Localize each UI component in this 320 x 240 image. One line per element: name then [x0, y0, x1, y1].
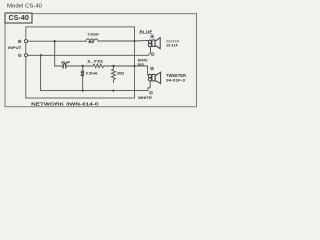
svg-text:0.6mH: 0.6mH — [88, 33, 99, 37]
svg-text:30Ω: 30Ω — [117, 70, 125, 75]
svg-text:INPUT: INPUT — [8, 45, 22, 50]
svg-text:BLUE: BLUE — [139, 29, 152, 34]
svg-text:0.5mH: 0.5mH — [86, 72, 98, 76]
svg-text:4μF: 4μF — [61, 60, 72, 64]
svg-text:26-11F: 26-11F — [166, 44, 178, 48]
svg-text:94-01F-3: 94-01F-3 — [166, 78, 186, 83]
svg-text:1.7Ω: 1.7Ω — [87, 59, 104, 63]
svg-text:RED: RED — [138, 63, 145, 67]
svg-text:NETWORK 3WN-014-0: NETWORK 3WN-014-0 — [31, 102, 99, 108]
svg-text:CS-40: CS-40 — [9, 15, 30, 22]
svg-text:WHITE: WHITE — [138, 95, 152, 100]
svg-text:Model CS-40: Model CS-40 — [7, 3, 42, 9]
